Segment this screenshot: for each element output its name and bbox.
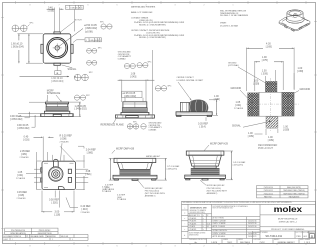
svg-text:SPC: SPC: [89, 72, 94, 74]
svg-text:SPC: SPC: [30, 22, 35, 24]
bottom view body: [42, 161, 76, 189]
svg-text:3: 3: [174, 5, 176, 7]
svg-text:⊥: ⊥: [184, 206, 186, 209]
left dim line mateA: [110, 158, 112, 180]
document number row: [253, 231, 309, 244]
svg-text:NICKEL (1~4 MICROMETER): NICKEL (1~4 MICROMETER): [139, 37, 166, 39]
iso shield can: [287, 10, 303, 21]
disclaimer strip: [182, 204, 316, 206]
right pads: [68, 169, 71, 173]
svg-text:⌖: ⌖: [184, 228, 186, 231]
svg-text:2 PLACES: 2 PLACES: [189, 222, 197, 225]
section base plate: [176, 112, 212, 116]
datum pair right B: [87, 60, 92, 65]
bottom dim line: [20, 76, 77, 78]
svg-text:VSWR:: VSWR:: [220, 22, 227, 24]
svg-text:0.1: 0.1: [207, 226, 209, 228]
svg-text:[.039]: [.039]: [248, 135, 254, 138]
svg-text:GROUND: GROUND: [231, 87, 242, 90]
svg-text:[.049±.002]: [.049±.002]: [75, 108, 87, 111]
svg-text:[.039]: [.039]: [253, 83, 259, 86]
datum pair left: [155, 86, 160, 91]
svg-text:[.063±.004]: [.063±.004]: [51, 80, 63, 83]
svg-text:73412-0112: 73412-0112: [263, 193, 272, 195]
svg-text:[.043]: [.043]: [130, 75, 136, 78]
svg-text:∡: ∡: [184, 235, 186, 237]
bottom zone numbers: [29, 246, 234, 247]
svg-text:73412: 73412: [259, 242, 264, 244]
svg-text:1: 1: [232, 5, 234, 7]
svg-text:CUSTOMER: CUSTOMER: [253, 239, 260, 241]
side view cap flange: [45, 102, 68, 104]
svg-text:D: D: [311, 234, 313, 238]
bottom row: [188, 237, 316, 239]
datum pair right top: [74, 95, 79, 100]
pcb part outline square: [259, 92, 282, 116]
svg-text:2 PLACES: 2 PLACES: [20, 156, 30, 159]
placeholder groups filled in by edits: [11, 5, 112, 83]
pcb centerlines: [270, 78, 272, 131]
left dim line view3: [36, 161, 38, 189]
svg-text:GENERAL TOLERANCE: GENERAL TOLERANCE: [190, 209, 207, 212]
svg-text:±: ±: [203, 218, 204, 220]
datum pair right A: [87, 48, 92, 53]
svg-text:1.45 1.90 MAX: 1.45 1.90 MAX: [233, 161, 246, 164]
svg-text:[.049]: [.049]: [214, 98, 220, 101]
middle side view bottom plate: [116, 115, 155, 118]
svg-text:SIGNAL: SIGNAL: [68, 68, 77, 71]
iso base plate top face: [279, 15, 310, 29]
svg-text:SPC: SPC: [86, 95, 91, 97]
svg-text:DIMENSIONS: DIMENSIONS: [189, 234, 199, 236]
top view left ear: [41, 44, 43, 53]
svg-text:⊕ ◐: ⊕ ◐: [194, 241, 197, 244]
bottom view inner edge marks: [44, 163, 74, 187]
svg-text:[.014]: [.014]: [200, 126, 206, 129]
svg-text:APPR: BKUANG: APPR: BKUANG: [213, 235, 226, 238]
svg-text:08.01.08: 08.01.08: [61, 236, 68, 238]
iso base inner edge: [282, 18, 308, 29]
svg-text:73412-0111: 73412-0111: [264, 190, 273, 192]
svg-text:0 PLACES: 0 PLACES: [189, 228, 197, 231]
receptacle dark band: [120, 170, 150, 176]
svg-text:[.081]: [.081]: [21, 153, 27, 156]
keyhole signal contact: [49, 167, 63, 181]
leader from datum pair to body corner: [28, 25, 30, 27]
side view base slab: [44, 111, 69, 114]
svg-text:MCRF DMP H29: MCRF DMP H29: [210, 142, 229, 145]
side view barrel body: [46, 104, 68, 107]
svg-text:(⌀0.98): (⌀0.98): [85, 30, 93, 33]
bottom border zone ticks: [16, 242, 307, 244]
left dim extension lines: [18, 34, 43, 63]
center contact circle: [55, 46, 59, 50]
svg-text:MCRF DAU (MOLEX: MCRF DAU (MOLEX: [207, 184, 225, 187]
product customer drawing row: [260, 227, 316, 231]
svg-text:0.08MAX: 0.08MAX: [118, 58, 127, 61]
svg-text:1 OF 3: 1 OF 3: [304, 242, 310, 244]
svg-text:[.039]: [.039]: [262, 72, 268, 75]
svg-text:MCRF DMP-H39: MCRF DMP-H39: [116, 147, 135, 150]
middle side view knurl band: [122, 108, 147, 113]
svg-text:2 PLACES: 2 PLACES: [105, 188, 115, 191]
svg-text:0.05: 0.05: [207, 223, 210, 225]
pad ground right: [282, 92, 294, 116]
svg-text:DOCUMENT STATUS: DOCUMENT STATUS: [3, 235, 21, 238]
svg-text:[.041]: [.041]: [17, 174, 23, 177]
middle side view base slab: [121, 112, 149, 115]
molex logo cell: [260, 214, 316, 216]
section left block: [180, 102, 189, 111]
middle side view center tab: [126, 116, 139, 118]
main vertical dividers: [188, 205, 260, 239]
iso center pin: [293, 13, 297, 17]
svg-text:INTERFACE: INTERFACE: [47, 92, 61, 95]
signal leader: [62, 65, 73, 68]
right dim mated height: [156, 158, 167, 180]
svg-text:DESCRIPTION: DESCRIPTION: [38, 233, 52, 235]
left edge bumps: [41, 168, 42, 172]
pad signal (bottom): [266, 117, 278, 129]
top dim lines: [55, 8, 60, 32]
svg-text:2 PLACES: 2 PLACES: [16, 177, 26, 180]
plug cap: [114, 158, 156, 162]
svg-text:PROD SPEC: PROD SPEC: [39, 230, 51, 232]
datum circles right of dia callout: [101, 24, 106, 29]
svg-text:ASSEMBLY): ASSEMBLY): [207, 192, 218, 195]
bottom L piece: [58, 187, 64, 190]
molex logo: [274, 205, 302, 214]
datum pairs below base: [127, 124, 132, 129]
svg-text:NOTCH: NOTCH: [75, 20, 82, 22]
svg-text:PART NO.: PART NO.: [264, 195, 273, 198]
plug body B: [189, 155, 222, 166]
svg-text:MUST REMAIN WITHIN: MUST REMAIN WITHIN: [189, 231, 205, 234]
svg-text:NICKEL (1~4 MICROMETER): NICKEL (1~4 MICROMETER): [139, 25, 166, 27]
svg-text:SIGNAL: SIGNAL: [232, 125, 241, 128]
svg-text:SHEET: SHEET: [3, 239, 8, 241]
svg-text:⌀: ⌀: [184, 212, 186, 215]
svg-text:RELEASE DATE: RELEASE DATE: [30, 235, 44, 238]
svg-text:C-SIZE: C-SIZE: [211, 242, 218, 244]
svg-text:PACKAGING: PACKAGING: [289, 195, 300, 198]
base feet: [114, 179, 156, 181]
right dim 1.25: [69, 102, 81, 117]
svg-text:SPC: SPC: [168, 85, 173, 87]
svg-text:[.018]: [.018]: [18, 194, 24, 197]
top zone numbers: [29, 5, 234, 7]
title block outer: [182, 201, 316, 243]
svg-text:SPC: SPC: [98, 48, 103, 50]
FCF box right: [85, 38, 101, 42]
svg-text:[.069] [.075]: [.069] [.075]: [167, 168, 177, 170]
svg-text:±: ±: [203, 215, 204, 217]
svg-text:1.75 1.90 MAX: 1.75 1.90 MAX: [167, 165, 180, 168]
svg-text:MATED HEIGHT: MATED HEIGHT: [146, 155, 161, 158]
top view body: [43, 34, 71, 63]
pad ground optional (top): [265, 81, 277, 92]
svg-text:001: 001: [304, 236, 308, 238]
plug body: [118, 163, 153, 170]
svg-text:[.169]: [.169]: [266, 46, 272, 49]
svg-text:2 PLACES: 2 PLACES: [234, 107, 244, 110]
svg-text:TAPE AND REEL (TAPED): TAPE AND REEL (TAPED): [283, 189, 305, 192]
svg-text:[.098±.002]: [.098±.002]: [85, 27, 97, 30]
svg-text:ASSEMBLY): ASSEMBLY): [145, 195, 156, 198]
svg-text:[.121]: [.121]: [85, 173, 91, 176]
svg-text:[.063±.004]: [.063±.004]: [12, 45, 24, 48]
svg-text:SD-73412-011: SD-73412-011: [265, 234, 282, 238]
middle side view barrel: [123, 102, 147, 108]
leader to section: [178, 82, 192, 101]
long extension line: [152, 50, 154, 119]
svg-text:2 PLACES: 2 PLACES: [17, 197, 27, 200]
svg-text:73412: 73412: [227, 242, 232, 244]
svg-text:7: 7: [58, 5, 60, 7]
svg-text:SPC: SPC: [100, 22, 105, 24]
svg-text:TAPE AND REEL (TAPED): TAPE AND REEL (TAPED): [283, 192, 305, 195]
view3 extension line network: [34, 155, 88, 183]
svg-text:DOCUMENT NUMBER: DOCUMENT NUMBER: [253, 232, 267, 234]
FCF box top: [66, 5, 84, 9]
svg-text:0.08MAX: 0.08MAX: [149, 129, 158, 132]
iso base feet tabs: [285, 23, 309, 31]
svg-text:2 PLACES: 2 PLACES: [60, 140, 70, 143]
svg-text:⊕: ⊕: [56, 72, 58, 75]
top view bottom tab: [54, 63, 60, 65]
svg-text:[.020]: [.020]: [52, 202, 58, 205]
svg-text:A: A: [76, 6, 78, 9]
svg-text:[.041]: [.041]: [235, 104, 241, 107]
svg-text:MATERIAL AND FINISHES: MATERIAL AND FINISHES: [131, 6, 156, 9]
svg-text:LOCATED CENTRAL OF PART: LOCATED CENTRAL OF PART: [177, 79, 204, 82]
iso bore shading: [289, 12, 294, 17]
iso pedestal: [286, 17, 304, 23]
svg-text:SHEET NUMBER: SHEET NUMBER: [300, 239, 310, 241]
packaging table: [257, 186, 309, 198]
svg-text:MCRF DAU (MOLEX: MCRF DAU (MOLEX: [145, 187, 163, 190]
svg-text:BASE: LCP C6888 UHF: BASE: LCP C6888 UHF: [131, 11, 153, 14]
svg-text:DIMENSION: MM: DIMENSION: MM: [190, 207, 207, 209]
svg-text:PCB LAYOUT: PCB LAYOUT: [258, 147, 274, 150]
top view right ear: [71, 44, 73, 53]
left extension lines: [18, 114, 40, 117]
side view bottom plate: [41, 114, 74, 117]
svg-text:P1: P1: [26, 236, 28, 238]
datum circle pair below: [74, 74, 81, 81]
svg-text:±: ±: [184, 218, 186, 220]
left dim line with arrows: [28, 34, 30, 63]
side view knurl band: [46, 107, 68, 111]
datum circle pair top-left: [12, 25, 19, 32]
right dim 1.00: [209, 100, 218, 116]
isometric connector drawing: [279, 10, 310, 32]
svg-text:GROUND: GROUND: [300, 88, 311, 91]
svg-text:0.08Ⓜ: 0.08Ⓜ: [70, 5, 76, 9]
svg-text:SERIES: SERIES: [238, 239, 243, 241]
barrel inner circle: [48, 39, 66, 57]
receptacle base: [113, 175, 157, 179]
svg-text:[.039]: [.039]: [297, 70, 303, 73]
svg-text:ANGULAR TOL: ANGULAR TOL: [189, 214, 200, 217]
svg-text:4 PLACES: 4 PLACES: [189, 217, 197, 220]
svg-text:DC-6GHz 1.35 MAX: DC-6GHz 1.35 MAX: [220, 24, 239, 27]
side view center tab: [53, 114, 61, 116]
svg-text:±: ±: [203, 229, 204, 231]
svg-text:○: ○: [184, 223, 186, 226]
svg-text:(OPTIONAL): (OPTIONAL): [228, 64, 239, 67]
svg-text:CENTER CONTACT: CENTER CONTACT: [177, 76, 195, 79]
svg-text:2 PLACES: 2 PLACES: [117, 198, 127, 201]
svg-text:[.080]: [.080]: [87, 152, 93, 155]
right dim B: [224, 151, 233, 180]
svg-text:260 DEG C 10 SEC MAXIMUM: 260 DEG C 10 SEC MAXIMUM: [220, 14, 248, 17]
svg-text:GENERAL MARKET: GENERAL MARKET: [277, 241, 295, 244]
barrel outer circle: [47, 38, 68, 59]
fcf box below tab: [56, 65, 58, 70]
section feet: [177, 115, 212, 116]
svg-text:8: 8: [29, 5, 31, 7]
datum pairs below note: [124, 63, 129, 68]
base feet B: [186, 179, 225, 181]
svg-text:PRODUCT CUSTOMER DRAWING: PRODUCT CUSTOMER DRAWING: [271, 228, 305, 231]
svg-text:SEE TABLE: SEE TABLE: [240, 241, 251, 244]
svg-text:73412-0110: 73412-0110: [263, 187, 272, 189]
receptacle mid B: [194, 166, 216, 168]
svg-text:2: 2: [203, 5, 205, 7]
svg-text:3 PLACES: 3 PLACES: [189, 220, 197, 223]
svg-text:REFERENCE PLANE: REFERENCE PLANE: [101, 124, 125, 127]
svg-text:±: ±: [203, 223, 204, 225]
top view notch: [54, 32, 60, 34]
symbol column cells: [182, 210, 189, 238]
svg-text:[.008]: [.008]: [60, 137, 66, 140]
svg-text:ASSISTED: ASSISTED: [47, 235, 57, 238]
plug cap B: [186, 151, 224, 155]
svg-text:5: 5: [116, 5, 118, 7]
svg-text:(VERTICAL SMT) -J: (VERTICAL SMT) -J: [279, 220, 297, 223]
leader to dia callout: [58, 29, 83, 47]
revision D box: [310, 234, 315, 238]
top border zone ticks: [16, 1, 307, 3]
svg-text:[.016]: [.016]: [23, 138, 29, 141]
svg-text:[.035±.002]: [.035±.002]: [10, 118, 22, 121]
svg-text:SPC: SPC: [133, 121, 138, 123]
svg-text:[.118]: [.118]: [54, 213, 60, 216]
svg-text:MCRF RECEPTACLE: MCRF RECEPTACLE: [278, 217, 298, 220]
receptacle base B: [185, 175, 226, 178]
svg-text:PSD: PSD: [297, 236, 302, 238]
svg-text:[.039]: [.039]: [268, 139, 274, 142]
svg-text:DOC TYPE: DOC TYPE: [296, 232, 303, 234]
svg-text:[.035±.002]: [.035±.002]: [17, 127, 29, 130]
svg-text:1 PLACE: 1 PLACE: [189, 225, 196, 228]
specification reference table: [5, 228, 58, 234]
pad ground left: [248, 93, 259, 116]
svg-text:[.016]: [.016]: [82, 208, 88, 211]
svg-text:BAG (500 SETS): BAG (500 SETS): [287, 186, 301, 189]
center crosshair: [53, 43, 62, 52]
svg-text:molex: molex: [274, 205, 302, 214]
svg-text:6: 6: [87, 5, 89, 7]
svg-text:PS-73098-0210: PS-73098-0210: [11, 230, 26, 232]
svg-text:2 PLACES: 2 PLACES: [81, 211, 91, 214]
svg-text:±: ±: [203, 226, 204, 228]
svg-text:[.039]: [.039]: [283, 128, 289, 131]
receptacle dark band B: [191, 168, 219, 175]
svg-text:[.057] [.075]: [.057] [.075]: [233, 165, 243, 167]
iso base plate thickness: [279, 22, 310, 31]
document status row: [3, 234, 89, 240]
svg-text:[.016]: [.016]: [48, 10, 54, 13]
section dark mass: [187, 100, 208, 112]
svg-text:±: ±: [203, 221, 204, 223]
svg-text:SPC: SPC: [148, 62, 153, 64]
svg-text:[.075]: [.075]: [262, 59, 268, 62]
